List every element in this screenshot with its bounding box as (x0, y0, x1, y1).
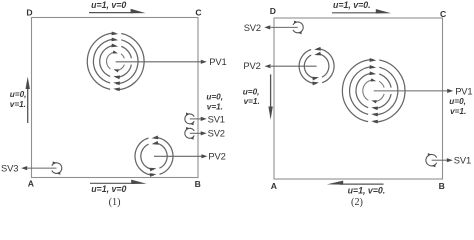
top lid arrow (rightward, diagram 1) (89, 12, 133, 14)
corner eddy SV3 circle (bottom-left corner, diagram 1) (52, 163, 62, 174)
secondary vortex PV2 (bottom-right corner, diagram 1) (135, 135, 173, 176)
svg-text:B: B (195, 179, 201, 189)
SV1 leader line and label (diagram 1) (190, 118, 202, 120)
svg-text:A: A (271, 181, 277, 191)
svg-text:u=0,: u=0, (10, 90, 27, 99)
svg-text:(2): (2) (351, 197, 363, 208)
primary vortex PV1 (diagram 2): concentric streamlines (342, 58, 405, 123)
svg-text:A: A (28, 178, 34, 188)
svg-text:u=0,: u=0, (206, 93, 223, 102)
svg-text:u=0,: u=0, (243, 88, 260, 97)
svg-text:SV2: SV2 (208, 128, 225, 139)
svg-text:PV2: PV2 (208, 151, 225, 162)
svg-text:SV2: SV2 (244, 22, 261, 33)
svg-text:D: D (26, 8, 32, 18)
corner eddy SV2 circle (top-left, diagram 2) (293, 22, 303, 33)
svg-text:SV3: SV3 (1, 163, 18, 174)
cavity box 2 (square ABCD, diagram 2) (274, 18, 443, 179)
svg-text:v=1.: v=1. (244, 97, 260, 106)
svg-text:u=1, v=0.: u=1, v=0. (333, 0, 371, 10)
bottom wall arrow (rightward, diagram 1) (90, 182, 134, 184)
SV2 leader line and label (diagram 1) (190, 132, 202, 134)
svg-text:u=0,: u=0, (449, 97, 466, 106)
secondary eddy SV1 circle (right wall, diagram 1) (185, 114, 194, 124)
svg-text:D: D (270, 6, 276, 16)
svg-text:PV1: PV1 (455, 85, 472, 96)
secondary eddy SV2 circle (right wall, diagram 1) (185, 128, 194, 138)
svg-text:SV1: SV1 (208, 113, 225, 124)
PV2 leader line and label (diagram 1) (154, 155, 202, 157)
PV1 leader line and label (diagram 1) (116, 61, 202, 63)
PV1 leader line and label (diagram 2) (374, 90, 448, 92)
svg-text:PV1: PV1 (209, 56, 226, 67)
svg-text:(1): (1) (109, 197, 121, 208)
SV2 leader line and label (diagram 2) (271, 26, 298, 28)
primary vortex PV1 (diagram 1): concentric streamlines (87, 32, 144, 92)
PV2 leader line and label (diagram 2) (271, 65, 317, 67)
svg-text:u=1, v=0: u=1, v=0 (91, 0, 126, 10)
SV3 leader line and label (diagram 1) (27, 167, 57, 169)
svg-text:PV2: PV2 (243, 60, 260, 71)
svg-text:u=1, v=0.: u=1, v=0. (348, 186, 386, 196)
svg-text:v=1.: v=1. (10, 100, 26, 109)
svg-text:u=1, v=0: u=1, v=0 (91, 184, 126, 194)
corner eddy SV1 circle (bottom-right, diagram 2) (426, 154, 437, 165)
svg-text:v=1.: v=1. (207, 103, 223, 112)
left wall arrow (downward, diagram 2) (270, 74, 272, 108)
secondary vortex PV2 (left wall, diagram 2) (299, 47, 334, 86)
top lid arrow (rightward, diagram 2) (332, 12, 378, 14)
svg-text:v=1.: v=1. (450, 107, 466, 116)
svg-text:C: C (440, 9, 446, 19)
svg-text:SV1: SV1 (454, 155, 471, 166)
svg-text:C: C (195, 8, 201, 18)
left wall arrow (upward, diagram 1) (27, 86, 29, 123)
SV1 leader line and label (diagram 2) (432, 159, 448, 161)
cavity box 1 (square ABCD, diagram 1) (32, 18, 199, 178)
svg-text:B: B (439, 181, 445, 191)
bottom wall arrow (leftward, diagram 2) (340, 183, 384, 185)
